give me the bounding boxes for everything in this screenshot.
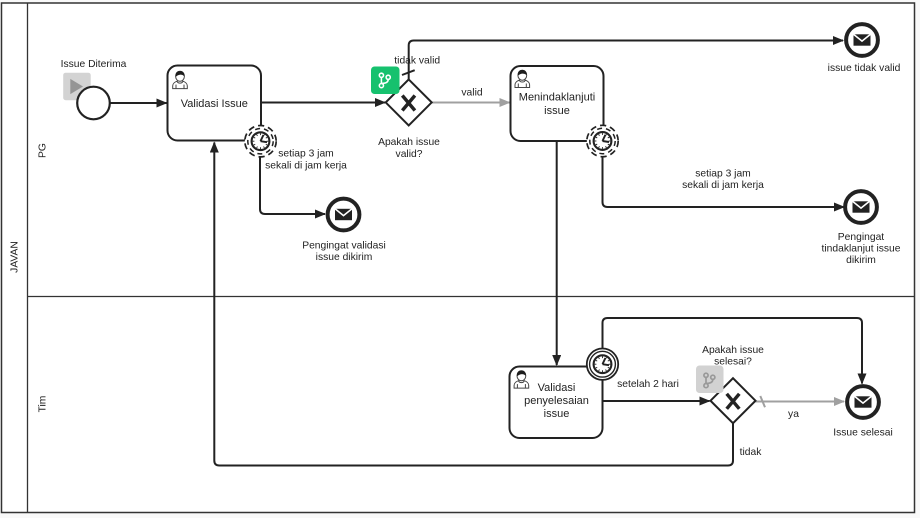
- boundary timer T1 non-interrupting: [245, 126, 276, 157]
- wire timer1 to Pengingat validasi issue dikirim: [260, 158, 325, 215]
- svg-text:Menindaklanjuti: Menindaklanjuti: [519, 92, 595, 104]
- svg-text:setelah 2 hari: setelah 2 hari: [617, 379, 679, 390]
- default flow slash on tidak valid: [402, 70, 415, 75]
- svg-text:tidak: tidak: [740, 447, 763, 458]
- end event Issue selesai: [847, 386, 879, 418]
- wire gateway2 tidak return to Validasi Issue: [214, 143, 733, 466]
- svg-text:penyelesaian: penyelesaian: [524, 395, 589, 407]
- task Menindaklanjuti issue: [511, 66, 604, 141]
- badge green branch: [371, 67, 400, 95]
- svg-text:ya: ya: [788, 409, 799, 420]
- svg-text:tindaklanjut issue: tindaklanjut issue: [822, 244, 901, 255]
- pool header divider: [27, 3, 29, 513]
- wire gateway to Menindaklanjuti issue (valid): [432, 102, 510, 104]
- svg-text:dikirim: dikirim: [846, 255, 876, 266]
- svg-text:sekali di jam kerja: sekali di jam kerja: [265, 160, 347, 171]
- start event Issue Diterima: [77, 87, 110, 120]
- svg-text:Apakah issue: Apakah issue: [378, 137, 440, 148]
- wire start to Validasi Issue: [111, 102, 167, 104]
- gateway Apakah issue valid?: [386, 79, 432, 125]
- svg-text:Validasi: Validasi: [538, 382, 576, 394]
- end event issue tidak valid: [846, 24, 878, 56]
- boundary timer T2 non-interrupting: [587, 125, 618, 156]
- svg-text:setiap 3 jam: setiap 3 jam: [695, 168, 751, 179]
- svg-text:Issue selesai: Issue selesai: [833, 427, 893, 438]
- wire Menindaklanjuti issue to Validasi penyelesaian issue: [556, 141, 558, 365]
- wire gateway to issue tidak valid (tidak valid): [409, 41, 843, 80]
- start event badge (play): [63, 73, 90, 101]
- end event Pengingat tindaklanjut issue dikirim: [845, 191, 877, 223]
- boundary timer T3 interrupting: [587, 349, 618, 380]
- task Validasi penyelesaian issue: [510, 367, 603, 439]
- svg-text:setiap 3 jam: setiap 3 jam: [278, 148, 334, 159]
- svg-text:sekali di jam kerja: sekali di jam kerja: [682, 180, 764, 191]
- svg-text:PG: PG: [38, 143, 49, 158]
- svg-text:valid: valid: [461, 88, 482, 99]
- svg-text:issue tidak valid: issue tidak valid: [828, 63, 901, 74]
- wire Validasi Issue to gateway: [261, 102, 385, 104]
- wire timer3 loop to Issue selesai: [603, 318, 863, 384]
- user icon task3: [514, 371, 529, 389]
- svg-text:Apakah issue: Apakah issue: [702, 345, 764, 356]
- end event Pengingat validasi issue dikirim: [328, 199, 360, 231]
- svg-text:Issue Diterima: Issue Diterima: [61, 59, 127, 70]
- svg-text:selesai?: selesai?: [714, 357, 752, 368]
- svg-text:Pengingat validasi: Pengingat validasi: [302, 240, 386, 251]
- svg-text:issue: issue: [544, 105, 570, 117]
- lane divider PG/Tim: [28, 296, 915, 298]
- default flow slash on ya: [760, 396, 765, 407]
- gateway Apakah issue selesai?: [711, 378, 756, 423]
- user icon task2: [515, 70, 530, 88]
- wire gateway2 to Issue selesai (ya): [756, 401, 845, 403]
- svg-text:Tim: Tim: [38, 396, 49, 413]
- svg-text:issue: issue: [544, 408, 570, 420]
- svg-text:Pengingat: Pengingat: [838, 232, 885, 243]
- task Validasi Issue: [168, 66, 262, 141]
- svg-text:tidak valid: tidak valid: [394, 55, 440, 66]
- wire Validasi penyelesaian issue to gateway2: [603, 400, 710, 402]
- svg-text:Validasi Issue: Validasi Issue: [181, 98, 248, 110]
- svg-text:JAVAN: JAVAN: [10, 241, 21, 273]
- wire timer2 to Pengingat tindaklanjut issue dikirim: [603, 158, 845, 208]
- badge gray branch: [696, 366, 724, 394]
- svg-text:issue dikirim: issue dikirim: [316, 252, 373, 263]
- svg-text:valid?: valid?: [396, 149, 423, 160]
- user icon task1: [173, 71, 188, 89]
